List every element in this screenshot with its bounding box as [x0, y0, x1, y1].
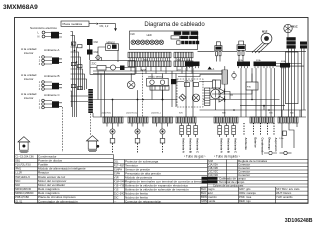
svg-text:V1R: V1R [114, 176, 119, 179]
wire drops strip B to bus [131, 67, 192, 74]
svg-text:PNK: rosa: PNK: rosa [239, 195, 252, 199]
svg-text:L,L1R: L,L1R [15, 172, 22, 175]
label box Placa metalica [61, 21, 89, 26]
relay contact K1 [71, 42, 82, 48]
solenoid valve wires S40 [282, 123, 297, 148]
relay contact K2 [71, 63, 82, 68]
capacitor small circle [232, 71, 236, 80]
wire connector C out [59, 103, 62, 107]
gas pipe sensor labels (vertical) [181, 138, 199, 153]
svg-text:3D106248B: 3D106248B [285, 218, 313, 224]
thermistor R2T [135, 129, 140, 134]
svg-text:M1C: M1C [292, 25, 298, 29]
svg-text:MR30,MRC30: MR30,MRC30 [15, 188, 31, 191]
sensor circle S1 [95, 56, 102, 61]
thermistor R1T [110, 129, 115, 134]
reactor L1R box [213, 80, 221, 88]
svg-text:Ambiente C: Ambiente C [44, 93, 61, 97]
svg-text:MRM10,MRM20: MRM10,MRM20 [15, 192, 34, 195]
connector pin row (black squares) [177, 41, 200, 44]
wire stepped to diode bus [176, 70, 222, 82]
svg-text:Ambiente C: Ambiente C [195, 138, 199, 153]
strip bus line [93, 116, 306, 118]
relay contact boxes MR30 [150, 86, 169, 91]
coil plugs under liquid pipe group [218, 123, 236, 137]
terminals 1 2 3 room C [39, 99, 45, 109]
connector labels S20 INT S21 ROJ S22 AZL [101, 112, 295, 114]
wire caps to bus [89, 45, 91, 60]
junction dots [112, 99, 270, 111]
svg-text:M1F: M1F [15, 184, 20, 187]
diode D3 [219, 89, 225, 95]
compressor M1C [284, 24, 298, 32]
pin header X77A (black vertical) [88, 89, 93, 113]
diode D4 [219, 92, 233, 103]
bus wire lower [63, 38, 307, 117]
fuse F1U (hatched vertical) [222, 70, 228, 84]
terminal L [38, 31, 45, 35]
terminal strip S20 (hatched) [103, 117, 123, 123]
svg-text:HAP,LED1~5: HAP,LED1~5 [15, 176, 30, 179]
svg-text:BRN: marrón: BRN: marrón [201, 195, 217, 199]
svg-text:(,S21 ROJ.): (,S21 ROJ.) [126, 112, 137, 114]
terminal strip S21 (hatched) [128, 117, 148, 123]
wire supply to connector [45, 33, 51, 37]
svg-text:Z1C~Z4C: Z1C~Z4C [114, 192, 125, 195]
connector S40 header (hatched) [174, 52, 193, 58]
svg-text:Y1E~Y3E: Y1E~Y3E [114, 184, 125, 187]
connector plugs under thermistors [110, 134, 165, 143]
bus wire y51.3 [198, 50, 307, 52]
resistor R1 hatched [205, 88, 210, 106]
pressure sensor S1NPH [209, 88, 220, 99]
terminal strip S70 (hatched) [176, 117, 196, 123]
capacitor bank C64 box [282, 68, 284, 118]
svg-text:Ambiente A: Ambiente A [44, 48, 59, 52]
svg-text:GRN: verde: GRN: verde [201, 199, 216, 203]
connector room A (black) [52, 57, 59, 64]
svg-text:3MXM68A9: 3MXM68A9 [3, 4, 38, 11]
wires room C [44, 101, 52, 108]
svg-text:(,S22 B.L.): (,S22 B.L.) [151, 112, 161, 114]
svg-text:C62: C62 [94, 41, 99, 44]
LED A indicator lamps [131, 40, 164, 44]
connector S20 header (hatched) [128, 52, 171, 58]
dashed sensor leads [113, 144, 163, 154]
capacitor C6A [194, 83, 199, 87]
connector supply (black) [51, 32, 59, 39]
connector box S80 (black header) [237, 41, 246, 55]
svg-text:Descarga: Descarga [267, 138, 271, 151]
dashed pcb outline edge [142, 70, 144, 117]
label S20 [144, 60, 182, 62]
ground house symbol 2 [87, 136, 100, 152]
svg-text:X1M: X1M [209, 178, 214, 180]
diode bridge DB1 [179, 94, 186, 101]
svg-text:X1D,X2D: X1D,X2D [208, 174, 219, 177]
svg-text:F20: F20 [131, 33, 136, 36]
relay MRM20 box [147, 77, 169, 86]
wire below arrows [130, 74, 132, 82]
noise filter box Z1C [90, 61, 135, 75]
ground house symbol 1 [18, 137, 30, 153]
svg-text:N: N [38, 35, 40, 39]
svg-text:(,S20 INT.): (,S20 INT.) [101, 112, 111, 114]
label S20A C63 [141, 69, 182, 72]
inverter PCB1 dashed outline [177, 79, 203, 107]
relay contact K3 [71, 85, 82, 90]
svg-text:Ambiente B: Ambiente B [188, 138, 192, 153]
svg-text:Terminal de campo: Terminal de campo [219, 180, 245, 184]
wires below strip S20 [107, 123, 168, 129]
wire mid horizontals [98, 71, 176, 117]
svg-text:Condensador: Condensador [260, 138, 264, 155]
svg-text:WHT: blanco: WHT: blanco [276, 191, 292, 195]
terminal strip S22 (hatched) [153, 117, 173, 123]
svg-text:1,2m: 1,2m [279, 138, 284, 140]
svg-text:S1PH: S1PH [114, 172, 121, 175]
terminals 1 2 3 room B [39, 81, 45, 91]
bus wires y71 y73.5 [93, 71, 222, 74]
wire lower junction line [240, 105, 285, 110]
terminals 1 2 3 room A [39, 56, 45, 66]
svg-text:GRY: gris: GRY: gris [239, 187, 251, 191]
svg-text:Q1,S1: Q1,S1 [15, 200, 23, 203]
legend table middle text [114, 159, 201, 203]
label A la unidad interior (A) [21, 47, 37, 55]
sensor leads S90 (dot-dash) [244, 123, 274, 136]
terminal X2M black cell [202, 180, 245, 184]
connector S40 lower (hatched) [174, 61, 193, 67]
svg-text:Conmutador de alimentación: Conmutador de alimentación [38, 199, 78, 203]
wire connector A out [59, 59, 62, 63]
svg-text:A: A [213, 67, 215, 71]
wires M1F down [252, 43, 269, 53]
svg-text:Q1L: Q1L [114, 160, 119, 163]
svg-text:MRM10 MRM20: MRM10 MRM20 [148, 77, 164, 79]
connector HAP row 2 [171, 36, 198, 39]
connector HAP row 1 (black cells) [174, 32, 198, 35]
svg-text:Ambiente A: Ambiente A [219, 138, 223, 153]
svg-text:Aspiración: Aspiración [274, 138, 278, 152]
border frame [15, 18, 309, 204]
svg-text:‹ Tubo de gas ›: ‹ Tubo de gas › [184, 155, 205, 159]
legend table right grid [208, 160, 309, 185]
svg-text:SKY BLU: azu cielo: SKY BLU: azu cielo [276, 187, 300, 191]
compressor terminal W (black) [287, 45, 296, 48]
svg-text:LED: LED [147, 33, 152, 37]
svg-text:X1M~X4M: X1M~X4M [114, 180, 126, 183]
svg-text:Y1S: Y1S [114, 188, 119, 191]
svg-text:DB1: DB1 [15, 160, 20, 163]
svg-text:BLK: negro: BLK: negro [201, 187, 215, 191]
solenoid valve connector box [279, 131, 286, 140]
relay MRM10 [106, 42, 119, 51]
capacitor block C1~C3 (black) [171, 79, 176, 84]
svg-text:PCB1,PCB2: PCB1,PCB2 [15, 196, 29, 199]
PCB2 service board outline [130, 31, 198, 50]
compressor harness box [286, 52, 299, 104]
wire sensor links [213, 74, 253, 111]
wires room A [44, 57, 52, 64]
svg-text:YLW: amarillo: YLW: amarillo [276, 195, 293, 199]
pipe end symbols [264, 151, 292, 154]
colour code table text [201, 187, 300, 203]
connector cells near border [300, 42, 307, 49]
svg-text:interior: interior [24, 77, 33, 81]
wire connector to X1M [59, 34, 62, 38]
svg-text:‹ Tubo de líquido ›: ‹ Tubo de líquido › [214, 155, 240, 159]
wire junction dots [72, 43, 78, 63]
svg-text:C1~C3,C64,C66: C1~C3,C64,C66 [15, 155, 34, 158]
svg-text:F3U: F3U [247, 87, 252, 89]
wire F1U [224, 66, 226, 99]
wire PCB2 to MRM20 [152, 74, 163, 100]
svg-text:CN, 1,2: CN, 1,2 [100, 24, 109, 28]
varistor V1R circle [192, 94, 200, 102]
svg-text:IPM1: IPM1 [15, 168, 21, 171]
legend table right text [208, 159, 268, 177]
fuse box F3U [246, 68, 258, 99]
capacitor C63 (black) [87, 39, 99, 45]
wires S70 S80 down [217, 55, 243, 61]
svg-text:R1T~R3T: R1T~R3T [114, 164, 125, 167]
terminal strip S90 (hatched) [250, 117, 274, 123]
terminal strip S40 (hatched) [278, 117, 298, 123]
connector room B (black) [52, 83, 59, 90]
terminal N [38, 35, 45, 39]
wire connector B out [59, 84, 62, 88]
colour code table grid [201, 187, 309, 204]
pin wires between headers [130, 58, 191, 61]
svg-text:Ambiente C: Ambiente C [233, 138, 237, 153]
svg-text:Ambiente A: Ambiente A [181, 138, 185, 153]
compressor terminal U (black) [287, 37, 296, 40]
svg-text:ORG: naranja: ORG: naranja [239, 191, 256, 195]
fan motor M1F [261, 30, 272, 44]
capacitor C64 (black) [87, 50, 99, 55]
svg-text:RED: rojo: RED: rojo [239, 199, 251, 203]
wires room B [44, 82, 52, 89]
svg-text:S1NPH: S1NPH [114, 168, 123, 171]
compressor terminal V (black) [287, 41, 296, 44]
svg-text:Diagrama de cableado: Diagrama de cableado [144, 22, 205, 28]
fan motor capacitor ellipse [127, 81, 135, 89]
svg-text:F1U,F2U,F3U: F1U,F2U,F3U [15, 164, 31, 167]
label A la unidad interior (C) [21, 92, 37, 100]
label A la unidad interior (B) [21, 73, 37, 81]
svg-text:interior: interior [24, 51, 33, 55]
bus wire horizontal mid [93, 99, 280, 101]
node A arrow [208, 67, 215, 72]
connector S20 lower (hatched) [128, 61, 171, 67]
wire CN to arrow down [99, 24, 117, 32]
wire verticals to bottom strip [113, 68, 301, 118]
wires M1C terminals to harness [289, 49, 295, 117]
connector room C (black) [52, 101, 59, 108]
dashed earth lead [63, 107, 91, 152]
arrow from placa metalica [89, 23, 99, 25]
wire M1C to terminals [287, 33, 289, 37]
connector ref labels [186, 59, 286, 63]
svg-text:Placa metálica: Placa metálica [63, 22, 83, 26]
svg-text:Z5C: Z5C [114, 196, 119, 199]
liquid pipe sensor labels (vertical) [219, 138, 237, 153]
svg-text:BLU: azul: BLU: azul [201, 191, 213, 195]
svg-text:Ambiente B: Ambiente B [44, 74, 60, 78]
wire right risers [276, 49, 304, 118]
connector box S70 (black header) [215, 42, 222, 56]
svg-text:Conector de retransmisión: Conector de retransmisión [125, 199, 162, 203]
thermistor R3T [160, 129, 165, 134]
terminal X1M black cell [202, 176, 247, 180]
svg-text:Z2C: Z2C [92, 62, 97, 66]
svg-text:M1C: M1C [15, 180, 20, 183]
coil plugs under gas pipe group [180, 123, 198, 137]
wire trunk from terminal blocks [71, 32, 89, 118]
legend table left text [15, 154, 86, 203]
legend table left grid [15, 155, 114, 204]
svg-text:interior: interior [24, 96, 33, 100]
bus connector row PCB1 top (black) [185, 62, 290, 69]
legend table middle grid [114, 160, 208, 204]
wire MRM10 down [98, 47, 118, 62]
outdoor sensor labels (vertical) [244, 138, 278, 155]
svg-text:Ambiente B: Ambiente B [226, 138, 230, 153]
terminal strip S80 (hatched) [214, 117, 238, 123]
svg-text:Suministro eléctrico: Suministro eléctrico [30, 26, 57, 30]
capacitor C5A [185, 83, 190, 87]
